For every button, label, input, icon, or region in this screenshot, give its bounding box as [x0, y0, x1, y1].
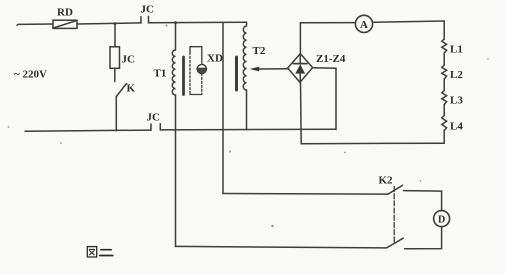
svg-text:D: D: [438, 214, 445, 225]
wire: top rail fuse to JC contact: [77, 23, 141, 24]
svg-text:JC: JC: [122, 54, 136, 66]
svg-text:RD: RD: [57, 7, 73, 19]
svg-text:A: A: [360, 19, 368, 31]
relay coil JC: [110, 47, 120, 69]
wire: right rail with loads: [443, 21, 445, 39]
bridge rectifier Z1-Z4: [288, 54, 313, 83]
wire: rail L3-L4: [443, 105, 445, 116]
wire: top rail JC contact to T2: [149, 21, 247, 24]
wire: T2 left rail down to contact K2 feed: [222, 22, 224, 193]
wire: K2 top feed from T2 rail: [223, 193, 388, 196]
wire: rail L1-L2: [443, 53, 445, 65]
wire: bridge bottom vertex down and right to load return: [301, 82, 445, 143]
transformer T2 core: [235, 57, 238, 90]
load L3: [442, 91, 447, 105]
node: junction at T1 top: [174, 21, 177, 24]
node: junction of JC coil branch: [114, 22, 117, 25]
wire: tap arrow from bridge to T2: [250, 67, 288, 72]
wire: meter D to K2 lower contact: [405, 227, 442, 249]
svg-text:T1: T1: [154, 68, 167, 80]
wire: T1 secondary to lamp XD loop: [190, 47, 202, 95]
fuse RD: [53, 20, 77, 28]
meter D: [434, 211, 450, 227]
contact JC (top, normally open): [141, 17, 149, 23]
wire: bottom rail JC contact to bridge return corner: [160, 128, 336, 131]
transformer T2 winding (autotransformer): [243, 22, 246, 129]
indicator lamp XD: [197, 64, 206, 74]
load L4: [442, 116, 447, 131]
wire: ammeter to right rail: [373, 21, 445, 22]
wire: bridge right vertex down to bottom rail: [313, 68, 336, 130]
switch K2 upper contact: [388, 185, 403, 194]
svg-text:L1: L1: [450, 44, 463, 56]
svg-text:K2: K2: [379, 175, 394, 187]
wire: bridge top vertex to DC+ rail: [299, 23, 301, 54]
svg-text:XD: XD: [207, 53, 223, 65]
svg-text:JC: JC: [141, 4, 155, 16]
contact JC (bottom, normally open): [151, 124, 160, 130]
wire: switch K to bottom rail: [115, 97, 117, 131]
svg-text:JC: JC: [147, 112, 161, 124]
wire: top rail from AC source to fuse: [17, 24, 53, 25]
ammeter A: [355, 15, 372, 32]
svg-text:~ 220V: ~ 220V: [14, 69, 47, 81]
load L2: [442, 65, 447, 79]
label 图二 (Figure 2): [87, 247, 113, 257]
svg-text:L2: L2: [450, 69, 463, 81]
wire: coil to switch K: [114, 68, 116, 81]
wire: right rail bottom: [443, 131, 445, 144]
switch K2 lower contact: [387, 238, 404, 248]
wire: bottom return loop to K2 lower contact: [176, 246, 387, 248]
wire: rail L2-L3: [443, 79, 445, 91]
scan specks: [8, 24, 489, 227]
svg-text:L3: L3: [450, 95, 463, 107]
switch K: [116, 84, 126, 97]
transformer T1 secondary winding (dotted): [189, 53, 191, 95]
wire: K2 upper contact to meter D: [404, 191, 442, 211]
load L1: [442, 39, 447, 53]
svg-text:L4: L4: [450, 121, 463, 133]
svg-text:K: K: [127, 83, 136, 95]
svg-text:Z1-Z4: Z1-Z4: [316, 53, 346, 65]
wire: DC+ rail to ammeter: [300, 22, 355, 24]
wire: bottom rail from source to JC contact: [25, 130, 151, 131]
switch K2 linkage (dashed): [393, 187, 395, 244]
transformer T1 core: [182, 57, 185, 95]
wire: branch down to relay coil: [114, 24, 116, 47]
transformer T1 primary winding: [172, 23, 175, 247]
svg-text:T2: T2: [253, 45, 266, 57]
